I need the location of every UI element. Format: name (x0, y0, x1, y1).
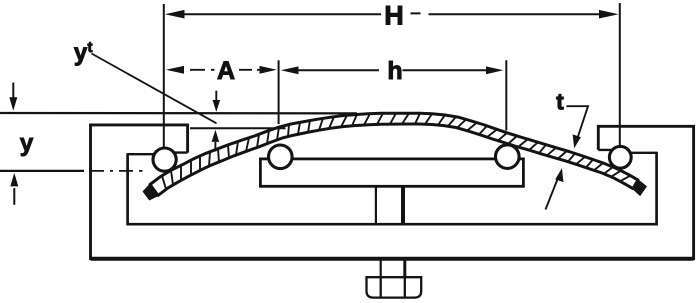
extension line right (H datum) (619, 3, 621, 146)
almen strip (hatched band) (150, 113, 638, 195)
inner cavity (128, 152, 657, 224)
extension line left (H/A datum) (163, 4, 165, 148)
support stem (375, 186, 377, 224)
y-t down arrow (215, 91, 217, 101)
svg-text:y: y (74, 40, 88, 67)
svg-text:H: H (384, 1, 404, 31)
t leader lower (546, 178, 559, 210)
y-t lower datum line (190, 127, 286, 129)
extension line A/h middle (278, 60, 280, 124)
svg-text:A: A (217, 57, 235, 85)
base bottom edge (thick) (91, 257, 694, 261)
t leader upper (567, 106, 589, 138)
dimension A line (dash-dot) (190, 69, 261, 71)
center support platform (260, 159, 523, 186)
y-t leader line (92, 54, 217, 124)
holder body outline (91, 125, 694, 259)
strip right end cap (633, 180, 646, 195)
extension line h right (505, 60, 507, 130)
strip hatching (162, 113, 630, 189)
h arrow right (486, 66, 503, 74)
lower y datum line (solid then dash-dot) (0, 170, 84, 172)
dimension H line (183, 12, 600, 15)
right ball ledge (598, 150, 656, 153)
svg-text:t: t (556, 89, 564, 115)
svg-text:y: y (20, 130, 34, 157)
strip left end cap (144, 185, 159, 200)
H arrow right (599, 10, 619, 19)
y up arrow (13, 188, 15, 205)
right end ball (609, 146, 631, 168)
A arrow right (260, 66, 277, 74)
H arrow left (165, 10, 185, 19)
left end ball (153, 148, 176, 171)
left ball ledge (128, 153, 188, 155)
dimension h line (296, 69, 489, 71)
middle right ball (496, 145, 520, 169)
bolt head (367, 277, 422, 297)
upper y datum line (0, 112, 357, 115)
middle left ball (269, 145, 293, 169)
bolt neck (380, 259, 382, 278)
y-t up arrow (214, 142, 216, 152)
h arrow left (281, 66, 299, 74)
svg-text:h: h (387, 57, 402, 85)
y down arrow (12, 83, 14, 100)
A arrow left (166, 66, 184, 74)
